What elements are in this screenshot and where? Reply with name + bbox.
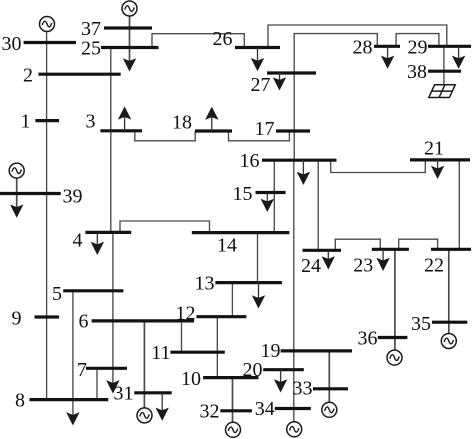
bus 20 xyxy=(263,368,304,371)
wire 16-21 bracket xyxy=(331,160,426,173)
svg-text:22: 22 xyxy=(424,255,444,277)
wire 18-17 bracket xyxy=(229,131,290,141)
svg-text:17: 17 xyxy=(255,118,275,140)
bus 17 xyxy=(276,129,310,132)
bus 28 xyxy=(374,45,400,48)
generator G30 xyxy=(40,17,55,32)
wire 23-36-G36 xyxy=(394,249,396,350)
load arrow bus 25 xyxy=(123,58,136,71)
wire 13-12 xyxy=(231,283,233,317)
svg-text:38: 38 xyxy=(407,61,427,83)
svg-text:6: 6 xyxy=(79,311,89,333)
svg-text:28: 28 xyxy=(353,37,373,59)
bus 9 xyxy=(35,315,60,318)
generator G35 xyxy=(441,334,456,349)
generator G39 xyxy=(9,163,24,178)
bus 4 xyxy=(85,231,131,234)
load arrow bus 39 xyxy=(10,205,23,218)
generator G36 xyxy=(387,350,402,365)
svg-text:16: 16 xyxy=(240,150,260,172)
bus 13 xyxy=(215,281,282,284)
load arrow bus 4 xyxy=(91,232,104,255)
wire 26-29 xyxy=(268,25,447,48)
svg-text:9: 9 xyxy=(12,308,22,330)
bus 11 xyxy=(170,351,224,354)
svg-text:5: 5 xyxy=(52,283,62,305)
load arrow bus 23 xyxy=(376,249,389,271)
svg-text:36: 36 xyxy=(358,328,378,350)
bus 35 xyxy=(432,321,467,324)
wire 24-23 bracket xyxy=(335,239,380,250)
svg-text:4: 4 xyxy=(73,230,83,252)
load arrow bus 3 xyxy=(118,106,131,130)
bus 27 xyxy=(267,71,316,74)
bus 12 xyxy=(196,315,246,318)
bus 21 xyxy=(410,158,470,161)
wire 3-18 bracket xyxy=(135,131,195,141)
generator G31 xyxy=(137,408,152,423)
wire 14-13 xyxy=(257,233,259,283)
load arrow bus 29 xyxy=(452,46,465,69)
svg-text:32: 32 xyxy=(200,400,220,422)
bus 25 xyxy=(101,46,159,49)
wire 25-2-3-4 xyxy=(110,48,112,233)
wire 19-33-G33 xyxy=(328,351,330,403)
svg-text:11: 11 xyxy=(151,342,170,364)
bus 10 xyxy=(203,376,258,379)
load arrow bus 31 xyxy=(156,393,169,421)
wire 12-11-10 xyxy=(216,317,218,378)
bus 24 xyxy=(303,249,342,252)
svg-text:24: 24 xyxy=(301,255,321,277)
wire 6-31-G31 xyxy=(143,321,145,408)
load arrow bus 27 xyxy=(273,73,286,91)
wire 27-17-16 xyxy=(293,73,295,160)
svg-text:34: 34 xyxy=(255,398,275,420)
wire 23-22 bracket xyxy=(399,239,438,249)
svg-text:31: 31 xyxy=(114,383,134,405)
wire gen37 to 37-25 xyxy=(129,16,131,63)
bus 16 xyxy=(262,159,337,162)
bus 7 xyxy=(86,367,127,370)
wire 16-15-14 xyxy=(273,160,275,232)
wire 25-26 xyxy=(152,34,244,48)
load arrow bus 15 xyxy=(261,193,274,213)
svg-text:14: 14 xyxy=(217,235,237,257)
wire 29-38 xyxy=(443,46,445,85)
svg-text:13: 13 xyxy=(195,273,215,295)
svg-text:7: 7 xyxy=(77,359,87,381)
svg-text:27: 27 xyxy=(251,74,271,96)
svg-text:20: 20 xyxy=(243,359,263,381)
bus 30 xyxy=(24,41,76,44)
bus 6 xyxy=(92,319,195,322)
load arrow bus 8 xyxy=(66,412,79,425)
wire 21-22 xyxy=(458,160,460,249)
bus 3 xyxy=(100,129,142,132)
svg-text:39: 39 xyxy=(63,185,83,207)
wire 5-8 xyxy=(72,291,74,417)
svg-text:29: 29 xyxy=(408,37,428,59)
load arrow bus 24 xyxy=(322,250,335,269)
bus 2 xyxy=(38,73,120,76)
bus 8 xyxy=(30,398,109,401)
svg-text:23: 23 xyxy=(353,255,373,277)
bus 38 xyxy=(428,70,461,73)
load arrow bus 21 xyxy=(431,160,444,179)
svg-text:19: 19 xyxy=(261,340,281,362)
load arrow bus 26 xyxy=(251,48,264,72)
generator G37 xyxy=(122,1,137,16)
load arrow bus 16 xyxy=(297,160,310,185)
bus 31 xyxy=(134,391,171,394)
svg-text:26: 26 xyxy=(213,28,233,50)
wire 22-35-G35 xyxy=(448,249,450,333)
load arrow bus 18 xyxy=(205,107,218,131)
wire 6-11 xyxy=(181,321,183,352)
generator G34 xyxy=(287,422,302,437)
bus 5 xyxy=(63,289,123,292)
wire 27-28 upper xyxy=(294,34,377,73)
svg-text:8: 8 xyxy=(15,389,25,411)
bus 23 xyxy=(372,248,409,251)
wire 28-29 bracket xyxy=(396,34,439,47)
wire 7-8 xyxy=(96,368,98,400)
bus 29 xyxy=(428,45,471,48)
bus 15 xyxy=(256,191,286,194)
svg-text:1: 1 xyxy=(21,110,31,132)
bus 37 xyxy=(104,26,152,29)
load arrow bus 7 xyxy=(106,380,119,393)
load arrow bus 20 xyxy=(274,370,287,393)
bus 39 xyxy=(0,192,61,195)
generator G32 xyxy=(226,422,241,437)
bus 18 xyxy=(195,129,232,132)
bus 32 xyxy=(220,409,252,412)
svg-text:2: 2 xyxy=(23,65,33,87)
bus 26 xyxy=(235,46,280,49)
svg-text:25: 25 xyxy=(81,38,101,60)
bus 33 xyxy=(313,387,348,390)
wire gen39 to 39-load xyxy=(16,178,18,208)
svg-text:33: 33 xyxy=(293,378,313,400)
wire 16-24 xyxy=(317,160,319,250)
svg-text:3: 3 xyxy=(86,110,96,132)
svg-text:30: 30 xyxy=(2,33,22,55)
load arrow bus 13 xyxy=(252,283,265,309)
svg-text:21: 21 xyxy=(424,138,444,160)
wire 4-5-6-7 xyxy=(112,232,114,384)
bus 19 xyxy=(281,349,352,352)
bus 34 xyxy=(275,407,311,410)
wire trunk 30-2-1-39-9-8 xyxy=(46,31,48,399)
bus 14 xyxy=(192,231,289,234)
external equivalent symbol bus 38 xyxy=(429,85,455,98)
bus 1 xyxy=(35,119,59,122)
svg-text:12: 12 xyxy=(176,303,196,325)
svg-text:18: 18 xyxy=(172,112,192,134)
bus 22 xyxy=(431,248,471,251)
generator G33 xyxy=(322,402,337,417)
svg-text:35: 35 xyxy=(411,313,431,335)
wire 4-14 bracket xyxy=(120,221,210,233)
svg-text:15: 15 xyxy=(233,183,253,205)
bus 36 xyxy=(378,336,408,339)
svg-text:10: 10 xyxy=(181,368,201,390)
wire 10-32-G32 xyxy=(232,378,234,423)
wire 16-19-20-34 xyxy=(293,160,295,422)
load arrow bus 28 xyxy=(381,46,394,69)
